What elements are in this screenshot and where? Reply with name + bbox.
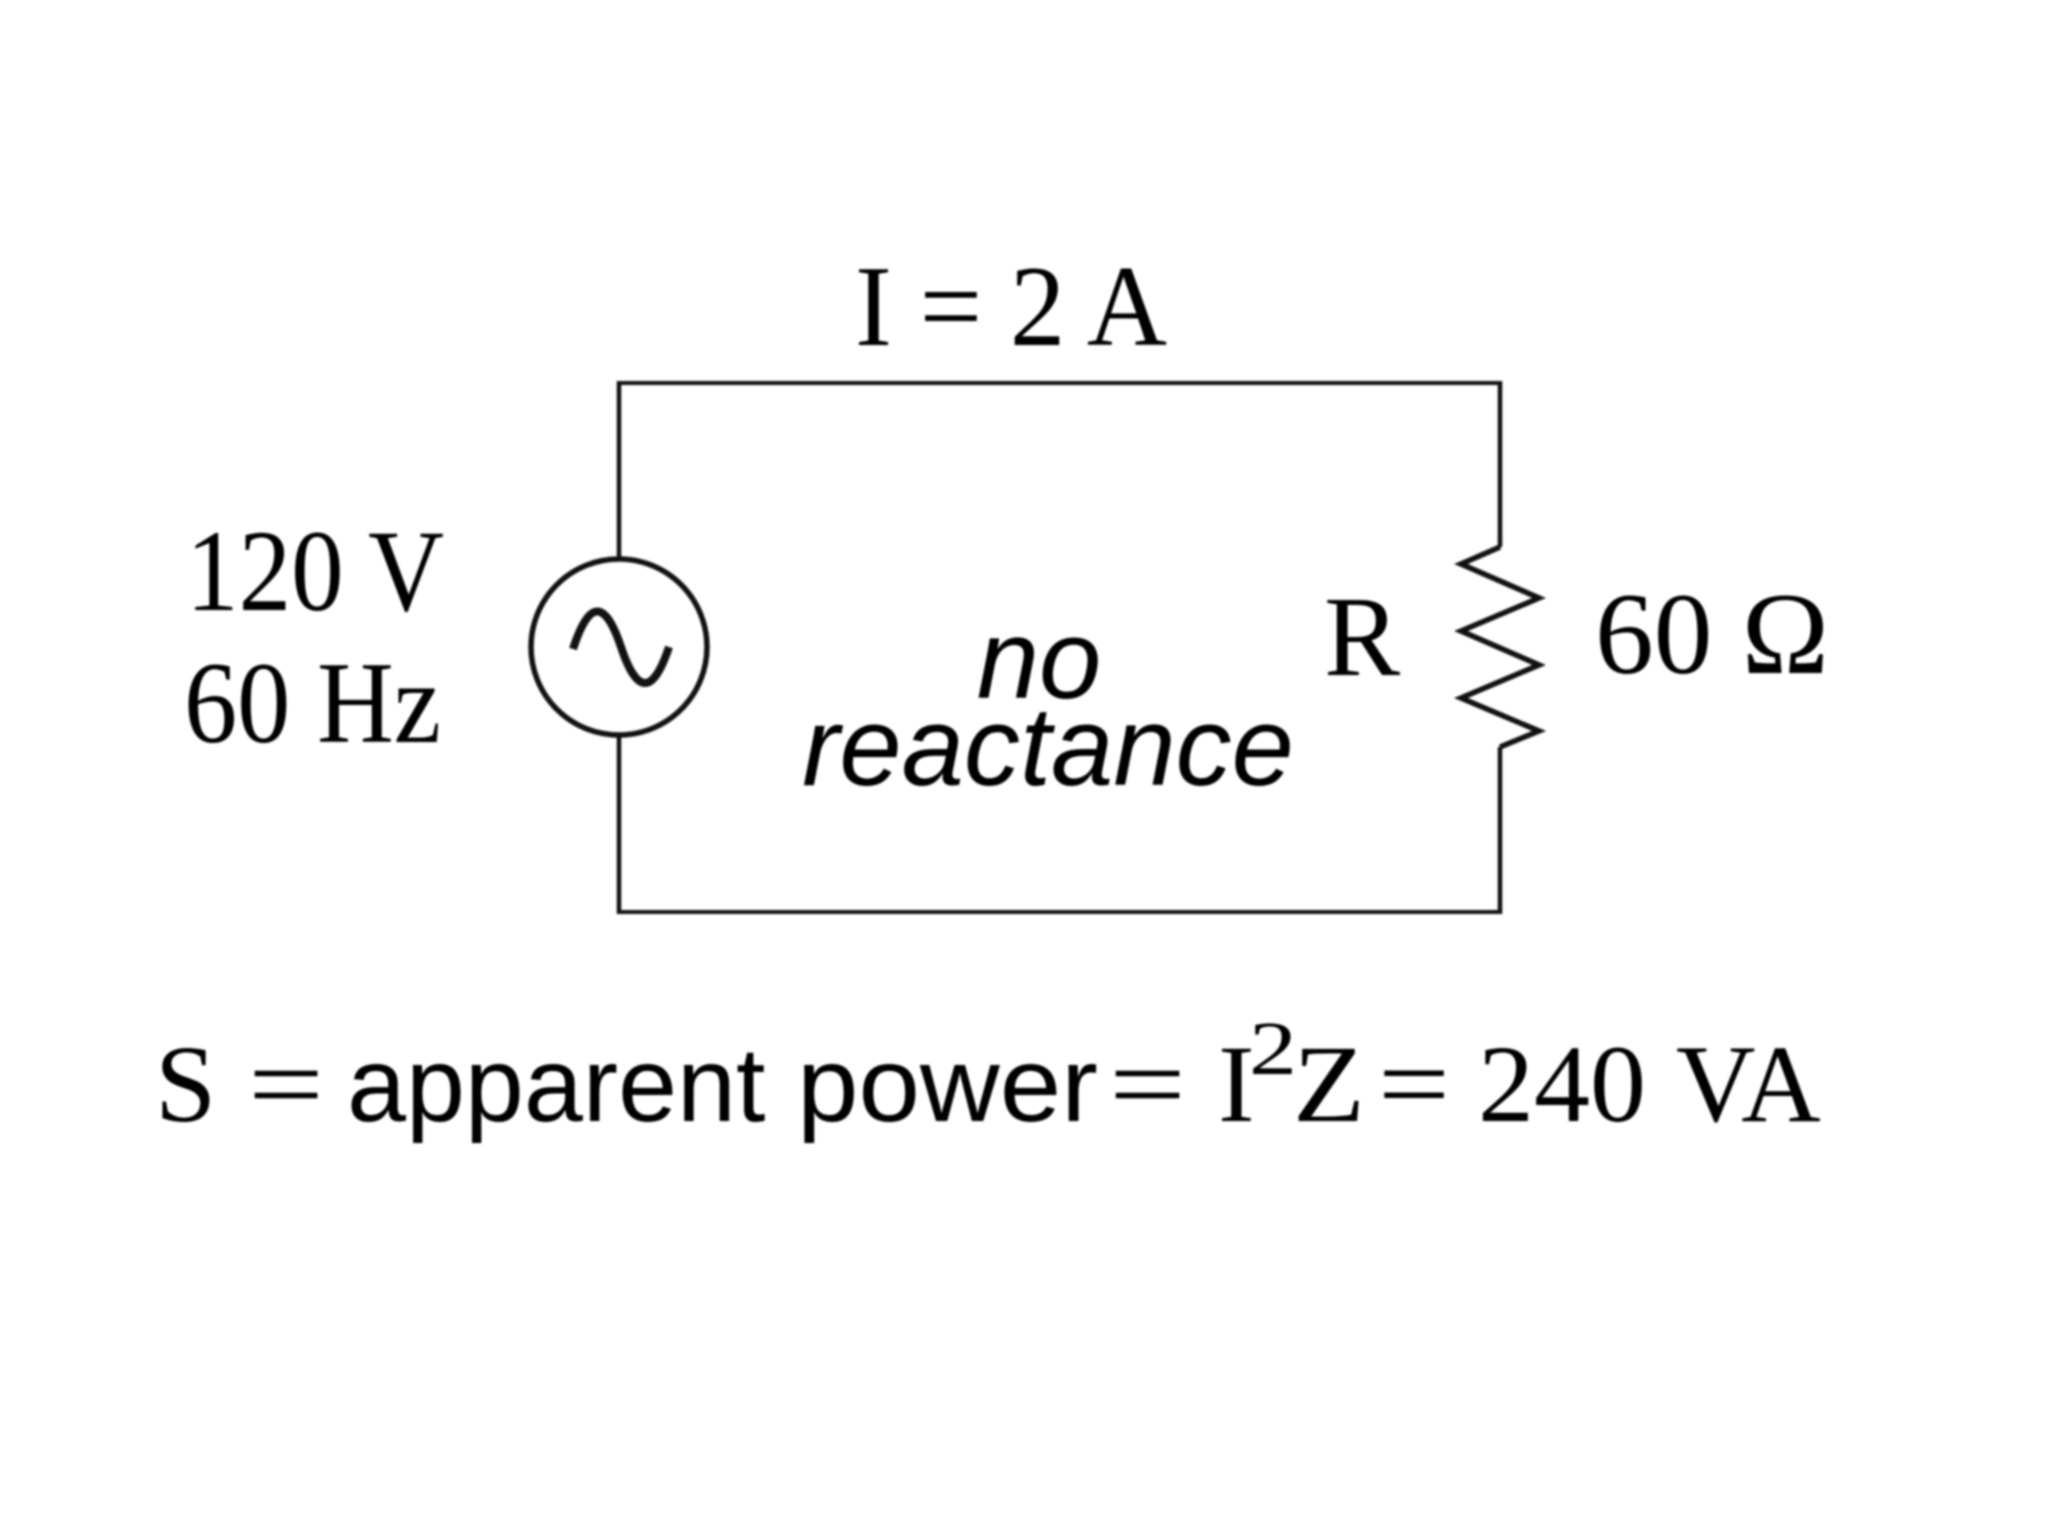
svg-text:reactance: reactance: [802, 684, 1294, 809]
wire bottom: [619, 910, 1500, 914]
svg-text:apparent: apparent: [347, 1026, 765, 1144]
svg-text:240: 240: [1478, 1023, 1646, 1145]
wire right lower: [1498, 747, 1503, 914]
svg-text:Z: Z: [1293, 1023, 1365, 1145]
wire left upper: [617, 381, 622, 559]
svg-text:60 Hz: 60 Hz: [184, 639, 441, 768]
svg-text:=: =: [1109, 1023, 1186, 1145]
resistor R zigzag: [1461, 547, 1539, 747]
svg-text:I = 2 A: I = 2 A: [855, 243, 1167, 371]
AC source V1 circle: [531, 559, 707, 735]
wire right upper: [1498, 381, 1503, 547]
svg-text:R: R: [1324, 573, 1400, 700]
wire left lower: [617, 735, 622, 914]
svg-text:VA: VA: [1676, 1023, 1821, 1145]
wire top: [619, 381, 1500, 385]
svg-text:power: power: [797, 1026, 1098, 1144]
svg-text:S: S: [155, 1023, 216, 1145]
svg-text:2: 2: [1249, 1007, 1297, 1091]
svg-text:=: =: [248, 1023, 324, 1145]
AC source sine wave: [573, 611, 669, 683]
svg-text:60 Ω: 60 Ω: [1595, 570, 1829, 699]
svg-text:120 V: 120 V: [186, 507, 444, 636]
svg-text:=: =: [1378, 1023, 1450, 1145]
